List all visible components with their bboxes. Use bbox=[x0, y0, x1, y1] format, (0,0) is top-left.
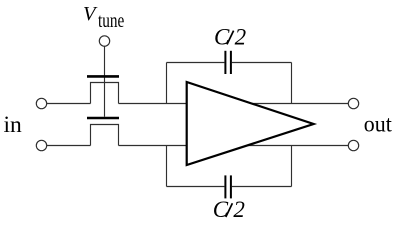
svg-text:C: C bbox=[213, 197, 229, 222]
svg-text:C: C bbox=[214, 25, 230, 50]
svg-text:2: 2 bbox=[233, 197, 245, 222]
svg-text:tune: tune bbox=[98, 10, 124, 32]
svg-text:2: 2 bbox=[235, 25, 247, 50]
svg-text:V: V bbox=[83, 3, 98, 25]
svg-text:out: out bbox=[364, 112, 392, 138]
svg-text:in: in bbox=[4, 112, 23, 137]
